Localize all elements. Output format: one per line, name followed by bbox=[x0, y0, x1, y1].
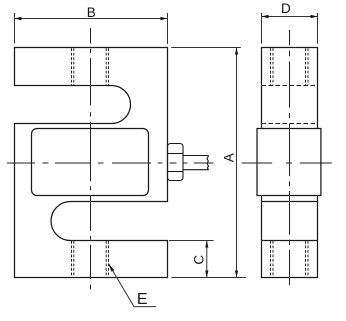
bottom thread hole dashed lines bbox=[72, 241, 109, 277]
arrow D right bbox=[311, 15, 318, 18]
front vertical centerline bbox=[90, 28, 92, 289]
svg-text:C: C bbox=[192, 255, 207, 265]
dimension C line bbox=[206, 241, 208, 278]
front horizontal centerline bbox=[7, 162, 214, 164]
dimension D extension left bbox=[261, 13, 263, 44]
arrow D left bbox=[262, 15, 269, 18]
cable bottom line bbox=[183, 169, 209, 171]
svg-text:B: B bbox=[87, 5, 96, 20]
svg-text:D: D bbox=[281, 1, 291, 16]
leader line E bbox=[109, 264, 157, 307]
arrow A top bbox=[235, 48, 238, 55]
cable top line bbox=[183, 155, 209, 157]
dimension A extension bottom bbox=[171, 277, 246, 279]
arrow C bottom bbox=[205, 271, 208, 278]
gland flat line lower bbox=[168, 171, 184, 173]
svg-text:A: A bbox=[222, 153, 237, 162]
side hidden line upper slot top bbox=[262, 85, 318, 87]
arrow E leader bbox=[109, 264, 115, 272]
dimension B extension left bbox=[14, 13, 16, 44]
cable break line bbox=[207, 156, 209, 170]
dimension D line bbox=[262, 16, 318, 18]
dimension A line bbox=[236, 48, 238, 278]
side bottom thread hole dashed lines bbox=[271, 241, 309, 277]
side view main rectangle bbox=[262, 48, 318, 278]
side horizontal centerline bbox=[242, 162, 332, 164]
label A bbox=[222, 153, 237, 162]
side top thread hole dashed lines bbox=[271, 48, 309, 85]
dimension B extension right bbox=[167, 13, 169, 44]
dimension C extension top bbox=[169, 240, 214, 242]
central window bbox=[32, 129, 149, 196]
dimension D extension right bbox=[317, 13, 319, 44]
label C bbox=[192, 255, 207, 265]
top thread hole dashed lines bbox=[72, 48, 109, 85]
svg-text:E: E bbox=[137, 291, 148, 308]
front view S-body outline bbox=[15, 48, 168, 278]
arrow C top bbox=[205, 241, 208, 248]
side view center boss bbox=[257, 129, 321, 196]
side vertical centerline bbox=[289, 30, 291, 285]
dimension B line bbox=[15, 18, 168, 20]
side visible line lower slot bottom bbox=[262, 240, 318, 242]
arrow B left bbox=[15, 17, 22, 20]
arrow B right bbox=[161, 17, 168, 20]
side hidden line upper slot bottom bbox=[262, 123, 318, 125]
dimension A extension top bbox=[171, 47, 241, 49]
side visible line lower slot top bbox=[262, 201, 318, 203]
arrow A bottom bbox=[235, 271, 238, 278]
cable gland bbox=[168, 144, 184, 181]
gland flat line upper bbox=[168, 153, 184, 155]
